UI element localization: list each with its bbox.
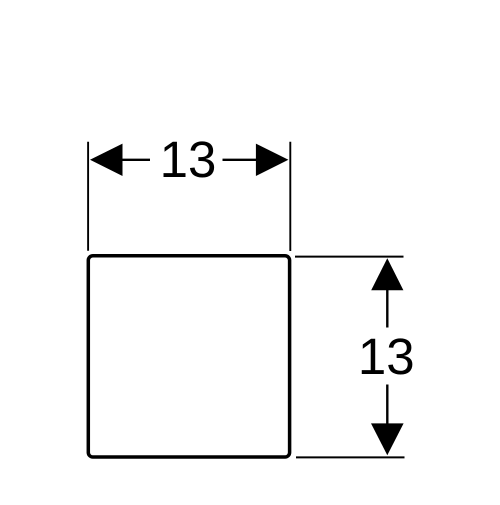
svg-text:13: 13 (160, 131, 217, 188)
arrowhead right (top dimension) (256, 144, 289, 176)
dimension line upper segment (right dimension) (386, 289, 388, 328)
arrowhead left (top dimension) (90, 144, 123, 176)
square outline (88, 256, 289, 457)
extension line bottom (right dimension) (296, 456, 405, 458)
extension line left (top dimension) (87, 142, 89, 251)
dimension line lower segment (right dimension) (386, 385, 388, 425)
extension line right (top dimension) (289, 142, 291, 251)
arrowhead down (right dimension) (371, 423, 404, 455)
dimension line left segment (top dimension) (122, 159, 151, 161)
extension line top (right dimension) (295, 256, 404, 258)
svg-text:13: 13 (358, 328, 415, 385)
arrowhead up (right dimension) (371, 258, 403, 290)
dimension line right segment (top dimension) (223, 159, 258, 161)
